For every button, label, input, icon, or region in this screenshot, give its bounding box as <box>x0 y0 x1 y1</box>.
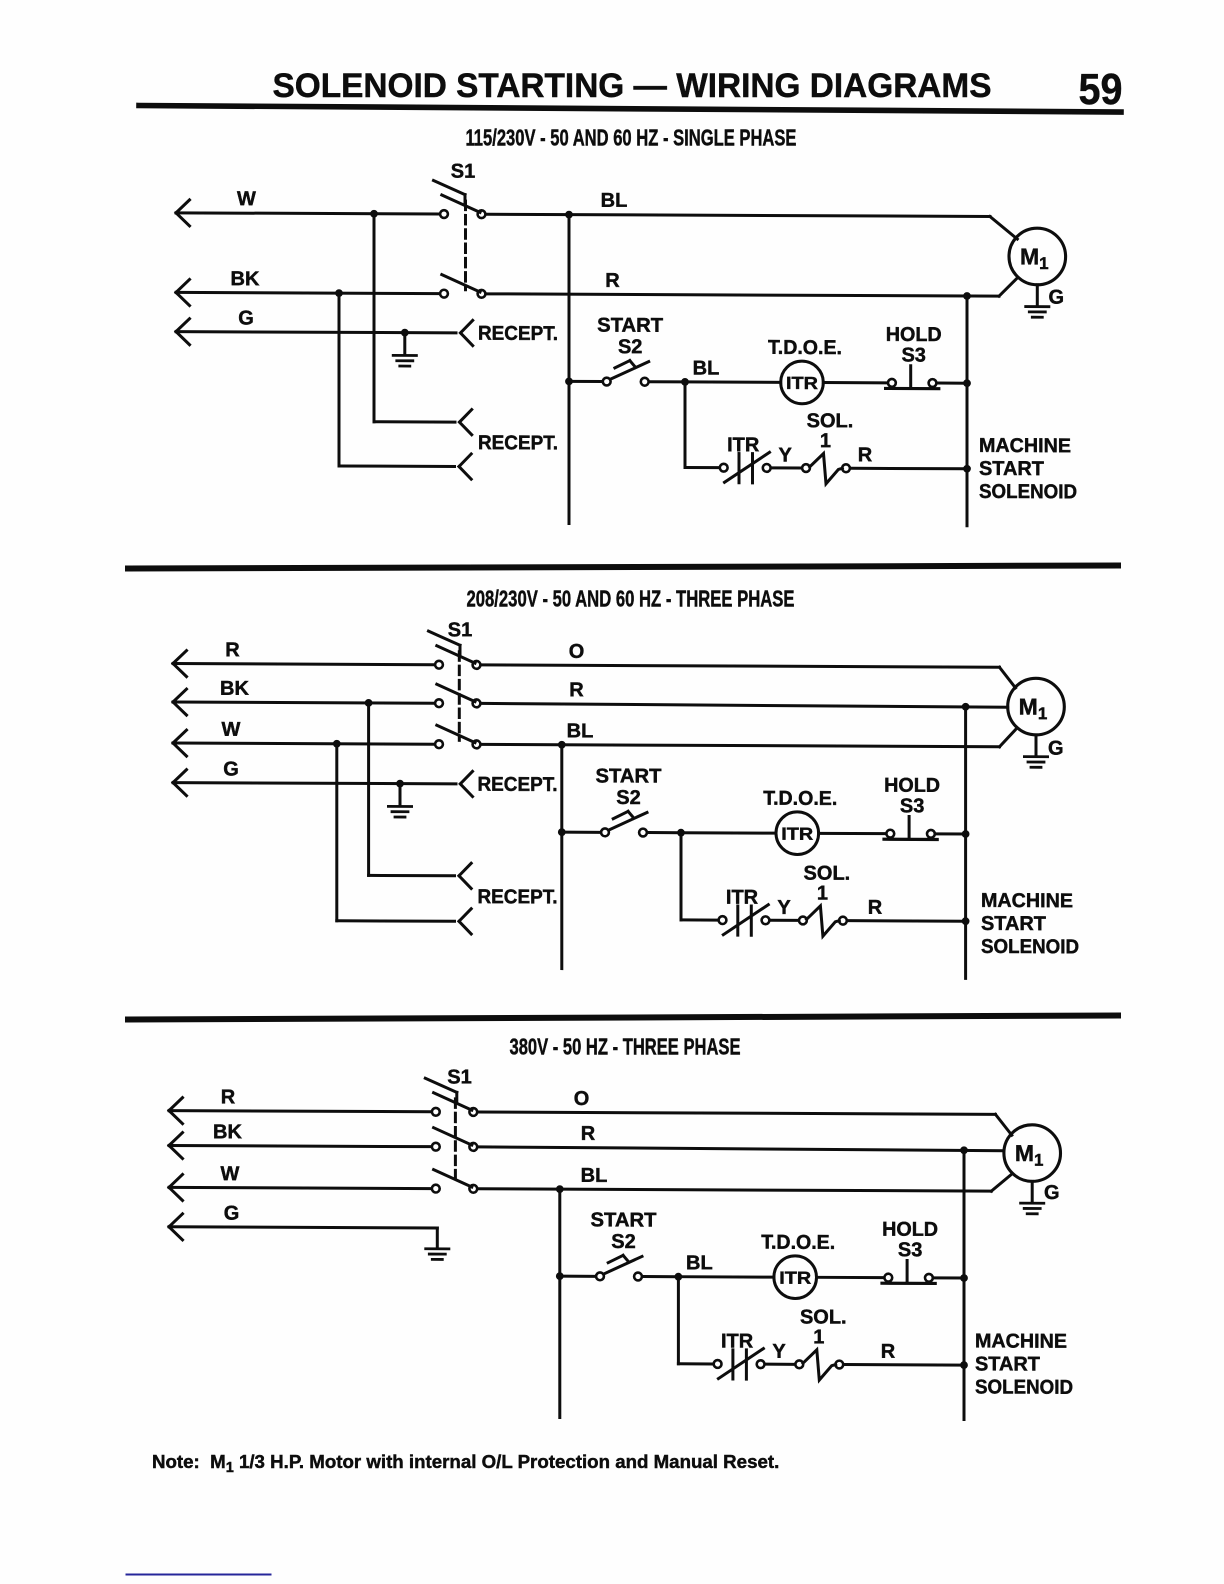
svg-text:SOLENOID: SOLENOID <box>981 936 1079 958</box>
D1 label T.D.O.E. <box>768 337 842 359</box>
D3 node: R / right rail junction <box>960 1146 968 1154</box>
svg-text:Y: Y <box>779 444 793 466</box>
D3 label 1 <box>813 1326 824 1348</box>
D1 wire W (incoming line) <box>176 200 439 227</box>
D2 node: R / right rail junction <box>962 703 970 711</box>
D2 label RECEPT. (1) <box>478 774 558 796</box>
D1 label S3 <box>901 344 925 366</box>
D2 label T.D.O.E. <box>763 788 837 810</box>
D3 motor M1 <box>1004 1125 1061 1182</box>
svg-text:T.D.O.E.: T.D.O.E. <box>763 788 837 810</box>
D2 node: W receptacle tap <box>333 740 341 748</box>
D2 node: junction right rail / control line <box>962 830 970 838</box>
D2 label 1 <box>817 883 828 905</box>
D3 wire BK (incoming line) <box>169 1133 430 1160</box>
D2 net label BL <box>567 720 594 742</box>
D3 wire G (incoming line) <box>169 1214 437 1241</box>
svg-text:G: G <box>238 307 254 329</box>
svg-text:START: START <box>596 765 662 787</box>
D2 receptacle contact 1 <box>460 771 472 784</box>
D1 wire: BK tap to receptacle 2 <box>339 293 455 466</box>
D2 wire: BK tap to receptacle 2 <box>369 703 455 876</box>
D1 wire: ITR coil to HOLD switch <box>823 381 886 384</box>
D3 net label Y <box>772 1341 786 1363</box>
svg-text:START: START <box>591 1209 657 1231</box>
svg-text:MACHINE: MACHINE <box>979 435 1071 457</box>
svg-text:1: 1 <box>813 1326 824 1348</box>
svg-text:BL: BL <box>686 1252 713 1274</box>
svg-text:208/230V - 50 AND 60 HZ - THRE: 208/230V - 50 AND 60 HZ - THREE PHASE <box>467 585 795 611</box>
D1 wire: S3 to right rail <box>938 382 967 385</box>
svg-text:ITR: ITR <box>726 887 759 909</box>
svg-text:HOLD: HOLD <box>882 1219 938 1241</box>
D3 wire: SOL 1 to right rail <box>845 1363 964 1367</box>
D3 label ITR (contact) <box>721 1330 754 1352</box>
D2 solenoid SOL 1 <box>799 906 847 936</box>
D2 net label O <box>569 641 585 663</box>
svg-text:Y: Y <box>772 1341 786 1363</box>
D3 relay coil ITR (T.D.O.E.) <box>774 1256 817 1299</box>
D3 net label BK <box>213 1121 242 1143</box>
D3 ground (G line) <box>426 1228 449 1260</box>
D3 switch S3 (HOLD pushbutton) <box>882 1260 935 1283</box>
D3 switch S1 pole 1 <box>425 1078 477 1116</box>
D2 node: junction of seal-in branch <box>677 829 685 837</box>
D2 contact ITR (timed, normally closed) <box>719 904 770 935</box>
svg-text:S3: S3 <box>901 344 925 366</box>
D3 label S3 <box>898 1239 922 1261</box>
D1 node: BK receptacle tap <box>335 289 343 297</box>
svg-text:1: 1 <box>817 883 828 905</box>
D2 wire: left rail from BL line down <box>560 745 563 969</box>
svg-text:G: G <box>1048 737 1064 759</box>
D2 wire BL from S1 to motor <box>482 727 1016 747</box>
D3 net label BL <box>581 1165 608 1187</box>
D2 wire: S3 to right rail <box>937 832 966 835</box>
D1 label ITR (contact) <box>727 434 760 456</box>
svg-text:ITR: ITR <box>779 1268 811 1288</box>
svg-text:BK: BK <box>220 678 249 700</box>
D3 label SOL. <box>800 1306 847 1328</box>
D3 wire: ITR contact to SOL 1 <box>766 1363 794 1366</box>
D1 switch S1 linkage (dashed) <box>464 201 467 290</box>
svg-text:W: W <box>222 719 241 741</box>
D1 switch S1 pole 2 <box>440 275 485 298</box>
D3 net label R (after switch) <box>581 1123 596 1145</box>
svg-text:S1: S1 <box>448 619 472 641</box>
D3 wire O from S1 to motor <box>479 1112 1012 1135</box>
svg-text:START: START <box>979 458 1044 480</box>
D3 node: junction right rail / solenoid line <box>960 1361 968 1369</box>
D1 label START <box>597 315 663 337</box>
D2 net label R <box>225 639 240 661</box>
svg-text:S1: S1 <box>451 161 475 183</box>
svg-text:SOL.: SOL. <box>807 410 854 432</box>
svg-text:R: R <box>858 444 873 466</box>
D2 net label BK <box>220 678 249 700</box>
svg-text:BL: BL <box>693 357 720 379</box>
D1 net label BL <box>601 190 628 212</box>
D3 net label W <box>221 1163 240 1185</box>
diagram 1 title 115/230V <box>466 124 797 150</box>
svg-text:G: G <box>1049 286 1065 308</box>
svg-text:START: START <box>981 913 1046 935</box>
D3 wire: seal-in branch drop and run <box>678 1277 712 1364</box>
D2 switch S1 pole 1 <box>429 631 481 669</box>
D3 wire: left rail from BL line down <box>558 1189 561 1417</box>
D2 node: ground tap on G <box>396 780 404 788</box>
svg-text:R: R <box>225 639 240 661</box>
D3 wire: S3 to right rail <box>935 1276 965 1279</box>
D2 net label R (solenoid lead) <box>868 897 883 919</box>
D1 node: junction of seal-in branch <box>681 378 689 386</box>
D3 wire: S2 to node <box>643 1275 678 1278</box>
D1 label HOLD <box>886 324 942 346</box>
D1 node: W receptacle tap <box>370 210 378 218</box>
D3 wire R (to motor centre) <box>479 1147 1004 1151</box>
svg-text:START: START <box>597 315 663 337</box>
D1 relay coil ITR (T.D.O.E.) <box>781 361 824 404</box>
svg-text:O: O <box>569 641 585 663</box>
D2 wire: seal-in branch drop and run <box>681 833 717 920</box>
page title <box>273 67 992 105</box>
D2 node: BL / control rail junction <box>558 741 566 749</box>
svg-text:SOL.: SOL. <box>804 862 851 884</box>
svg-text:ITR: ITR <box>727 434 760 456</box>
svg-text:HOLD: HOLD <box>884 775 940 797</box>
D1 wire BK (incoming line) <box>176 279 439 306</box>
D1 node: ground tap on G <box>401 329 409 337</box>
diagram 2 title 208/230V <box>467 585 795 611</box>
D2 node: junction right rail / solenoid line <box>962 917 970 925</box>
D3 wire W (incoming line) <box>169 1174 430 1201</box>
svg-text:R: R <box>868 897 883 919</box>
D1 node: R / right rail junction <box>963 292 971 300</box>
D3 wire: ITR coil to HOLD switch <box>817 1276 883 1279</box>
D2 label ITR (contact) <box>726 887 759 909</box>
diagram 3 title 380V <box>510 1033 741 1059</box>
D3 wire R (incoming line) <box>169 1098 430 1125</box>
D3 switch S1 pole 2 <box>432 1128 477 1151</box>
D2 ground (G line) <box>388 784 411 818</box>
svg-text:Note: M1 1/3 H.P. Motor with: Note: M1 1/3 H.P. Motor with internal O/… <box>152 1451 779 1476</box>
D3 node: BL / control rail junction <box>556 1185 564 1193</box>
note: M1 motor protection <box>152 1451 779 1476</box>
D1 wire: left rail from BL line down <box>568 215 571 524</box>
D3 label T.D.O.E. <box>761 1232 835 1254</box>
svg-text:SOLENOID STARTING — WIRING DIA: SOLENOID STARTING — WIRING DIAGRAMS <box>273 67 992 105</box>
svg-text:RECEPT.: RECEPT. <box>478 323 558 345</box>
D2 label HOLD <box>884 775 940 797</box>
D2 label S3 <box>900 795 924 817</box>
svg-text:RECEPT.: RECEPT. <box>478 774 558 796</box>
D1 wire R from S1 to motor <box>487 276 1017 297</box>
svg-text:MACHINE: MACHINE <box>975 1330 1067 1352</box>
header rule <box>139 106 1121 113</box>
svg-text:HOLD: HOLD <box>886 324 942 346</box>
svg-text:S1: S1 <box>447 1066 471 1088</box>
D2 node: junction left rail / START line <box>558 828 566 836</box>
D2 label START <box>596 765 662 787</box>
D1 wire: ITR contact to SOL 1 <box>772 466 801 469</box>
D3 wire BL from S1 to motor <box>479 1172 1012 1191</box>
D1 wire: node to ITR coil <box>685 380 781 383</box>
D1 net label R <box>605 270 620 292</box>
svg-text:S2: S2 <box>616 787 640 809</box>
D2 label S1 <box>448 619 472 641</box>
svg-text:R: R <box>221 1086 236 1108</box>
D2 net label W <box>222 719 241 741</box>
D2 wire: node to ITR coil <box>681 831 776 834</box>
D2 relay coil ITR (T.D.O.E.) <box>776 812 819 855</box>
D2 wire W (incoming line) <box>173 730 434 757</box>
D1 net label BL (control) <box>693 357 720 379</box>
svg-text:G: G <box>223 758 239 780</box>
svg-text:115/230V - 50 AND 60 HZ - SING: 115/230V - 50 AND 60 HZ - SINGLE PHASE <box>466 124 797 150</box>
svg-text:RECEPT.: RECEPT. <box>478 432 558 454</box>
svg-text:Y: Y <box>777 897 791 919</box>
D3 switch S2 (START) <box>596 1255 642 1280</box>
D1 label S2 <box>618 336 642 358</box>
svg-text:BL: BL <box>567 720 594 742</box>
D1 switch S3 (HOLD pushbutton) <box>886 366 939 389</box>
svg-text:T.D.O.E.: T.D.O.E. <box>768 337 842 359</box>
svg-text:R: R <box>605 270 620 292</box>
D2 wire: rail to START switch <box>562 831 600 834</box>
svg-text:BL: BL <box>581 1165 608 1187</box>
D1 node: junction right rail / control line <box>963 379 971 387</box>
D2 label S2 <box>616 787 640 809</box>
D3 motor ground G <box>1021 1181 1060 1214</box>
svg-text:59: 59 <box>1079 65 1123 114</box>
D3 solenoid SOL 1 <box>795 1350 843 1380</box>
D3 label S1 <box>447 1066 471 1088</box>
D1 wire: right rail <box>966 296 969 526</box>
D2 wire: ITR coil to HOLD switch <box>819 832 885 835</box>
D3 wire: rail to START switch <box>560 1275 595 1278</box>
D2 wire BK (incoming line) <box>173 689 434 716</box>
D3 node: junction left rail / START line <box>556 1272 564 1280</box>
svg-text:M1: M1 <box>1015 1140 1044 1170</box>
svg-text:MACHINE: MACHINE <box>981 890 1073 912</box>
D3 label HOLD <box>882 1219 938 1241</box>
D1 wire: W tap to receptacle 2 <box>374 214 455 422</box>
D1 wire: rail to START switch <box>569 380 601 383</box>
D3 switch S1 linkage (dashed) <box>454 1099 457 1185</box>
D2 wire: W tap to receptacle 2 <box>337 744 455 922</box>
D1 wire BL from S1 to motor <box>487 214 1017 239</box>
D1 motor ground G <box>1026 285 1064 318</box>
D2 wire R (incoming line) <box>173 651 434 678</box>
D3 label START <box>591 1209 657 1231</box>
D2 motor ground G <box>1024 735 1063 768</box>
svg-text:START: START <box>975 1353 1040 1375</box>
D3 label MACHINE START SOLENOID <box>975 1330 1073 1398</box>
svg-text:R: R <box>881 1341 896 1363</box>
D2 switch S1 pole 2 <box>435 684 480 707</box>
svg-text:ITR: ITR <box>781 824 813 844</box>
D1 node: junction right rail / solenoid line <box>963 465 971 473</box>
svg-text:W: W <box>237 188 256 210</box>
D1 label 1 <box>820 430 831 452</box>
svg-text:M1: M1 <box>1019 694 1048 724</box>
D1 switch S1 pole 1 <box>434 180 486 218</box>
D1 net label G <box>238 307 254 329</box>
D2 label RECEPT. (2) <box>478 886 558 908</box>
D2 wire O from S1 to motor <box>482 665 1016 688</box>
D1 receptacle contact 1 <box>461 320 473 333</box>
D1 wire G (incoming line) <box>176 319 456 346</box>
svg-text:SOL.: SOL. <box>800 1306 847 1328</box>
svg-text:BK: BK <box>231 268 260 290</box>
svg-text:S3: S3 <box>898 1239 922 1261</box>
D2 node: BK receptacle tap <box>365 699 373 707</box>
D2 wire: ITR contact to SOL 1 <box>771 919 798 922</box>
D2 net label Y <box>777 897 791 919</box>
svg-text:BL: BL <box>601 190 628 212</box>
svg-text:M1: M1 <box>1020 243 1049 273</box>
D1 solenoid SOL 1 <box>802 453 850 483</box>
D2 label MACHINE START SOLENOID <box>981 890 1079 958</box>
svg-text:380V - 50 HZ - THREE PHASE: 380V - 50 HZ - THREE PHASE <box>510 1033 741 1059</box>
D3 net label O <box>574 1088 590 1110</box>
D1 wire: SOL 1 to right rail <box>851 467 967 471</box>
D2 switch S1 pole 3 <box>435 725 480 748</box>
D2 wire: S2 to node <box>648 831 681 834</box>
svg-text:S3: S3 <box>900 795 924 817</box>
D2 wire R (to motor centre) <box>482 703 1008 707</box>
D3 node: junction of seal-in branch <box>675 1273 683 1281</box>
D2 switch S2 (START) <box>601 811 647 836</box>
D1 receptacle contact 2a <box>460 410 472 423</box>
D3 net label G <box>224 1203 240 1225</box>
D3 switch S1 pole 3 <box>432 1170 477 1193</box>
D1 node: BL / control rail junction <box>565 211 573 219</box>
D2 switch S1 linkage (dashed) <box>458 652 461 741</box>
page number 59 <box>1079 65 1123 114</box>
svg-text:ITR: ITR <box>786 373 818 393</box>
svg-text:G: G <box>1044 1182 1060 1204</box>
D2 net label G <box>223 758 239 780</box>
D1 net label BK <box>231 268 260 290</box>
D2 net label R (after switch) <box>569 679 584 701</box>
svg-text:BK: BK <box>213 1121 242 1143</box>
separator rule 2 <box>128 1016 1118 1020</box>
D2 wire: SOL 1 to right rail <box>848 919 965 923</box>
svg-text:S2: S2 <box>611 1231 635 1253</box>
D2 label SOL. <box>804 862 851 884</box>
D3 net label BL (control) <box>686 1252 713 1274</box>
svg-text:1: 1 <box>820 430 831 452</box>
D1 ground (G line) <box>393 333 416 367</box>
D1 switch S2 (START) <box>603 360 649 385</box>
svg-text:T.D.O.E.: T.D.O.E. <box>761 1232 835 1254</box>
D1 net label W <box>237 188 256 210</box>
D2 motor M1 <box>1008 678 1065 735</box>
D1 receptacle contact 2b <box>459 454 471 467</box>
D1 wire: seal-in branch drop and run <box>685 382 718 468</box>
svg-text:RECEPT.: RECEPT. <box>478 886 558 908</box>
D2 switch S3 (HOLD pushbutton) <box>884 816 937 839</box>
D2 receptacle contact 2a <box>459 863 471 876</box>
D3 contact ITR (timed, normally closed) <box>714 1348 765 1379</box>
D3 node: junction right rail / control line <box>960 1274 968 1282</box>
D3 wire: node to ITR coil <box>678 1275 774 1278</box>
D1 node: junction left rail / START line <box>565 377 573 385</box>
svg-text:S2: S2 <box>618 336 642 358</box>
D3 net label R <box>221 1086 236 1108</box>
D1 label RECEPT. (1) <box>478 323 558 345</box>
D1 wire: S2 to node <box>650 380 685 383</box>
D3 label S2 <box>611 1231 635 1253</box>
D2 wire G (incoming line) <box>173 770 456 797</box>
svg-text:SOLENOID: SOLENOID <box>979 481 1077 503</box>
D1 label S1 <box>451 161 475 183</box>
D2 receptacle contact 2b <box>459 909 471 922</box>
D1 label MACHINE START SOLENOID <box>979 435 1077 503</box>
D2 wire: right rail <box>964 707 967 979</box>
D1 label RECEPT. (2) <box>478 432 558 454</box>
svg-text:R: R <box>569 679 584 701</box>
D3 net label R (solenoid lead) <box>881 1341 896 1363</box>
D1 contact ITR (timed, normally closed) <box>720 452 771 483</box>
D3 wire: right rail <box>963 1150 966 1419</box>
bottom rule (blue) <box>127 1574 271 1576</box>
D1 label SOL. <box>807 410 854 432</box>
D1 net label Y <box>779 444 793 466</box>
svg-text:SOLENOID: SOLENOID <box>975 1376 1073 1398</box>
D1 net label R (solenoid lead) <box>858 444 873 466</box>
svg-text:ITR: ITR <box>721 1330 754 1352</box>
separator rule 1 <box>128 566 1118 569</box>
svg-text:R: R <box>581 1123 596 1145</box>
svg-text:W: W <box>221 1163 240 1185</box>
svg-text:G: G <box>224 1203 240 1225</box>
svg-text:O: O <box>574 1088 590 1110</box>
D1 motor M1 <box>1009 228 1066 285</box>
